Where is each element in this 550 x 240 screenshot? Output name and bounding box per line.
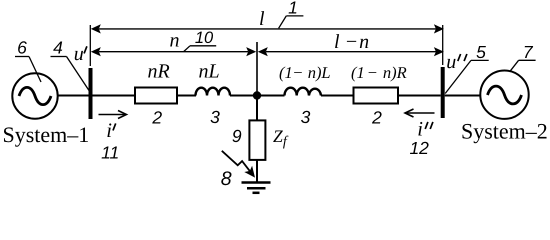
leader for label 4 <box>51 57 90 91</box>
svg-text:System–2: System–2 <box>461 119 548 144</box>
wire resistor nR to inductor nL <box>177 95 196 97</box>
leader for label 6 <box>15 57 41 83</box>
wire G1 to bus u' <box>58 95 89 97</box>
wire Zf to ground <box>256 160 258 183</box>
wire resistor (1-n)R to bus u'' <box>398 95 441 97</box>
svg-text:11: 11 <box>101 142 119 162</box>
leader for label 7 <box>510 60 536 71</box>
wire inductor (1-n)L to resistor (1-n)R <box>321 95 354 97</box>
svg-text:u: u <box>446 51 456 73</box>
generator G2 (System-2 source) <box>480 71 528 119</box>
svg-text:7: 7 <box>523 42 534 62</box>
svg-text:3: 3 <box>301 107 311 127</box>
extension line above bus u' <box>89 25 91 66</box>
svg-text:System–1: System–1 <box>3 122 90 147</box>
svg-text:2: 2 <box>151 107 162 127</box>
wire node F down to fault impedance Zf <box>256 96 258 121</box>
svg-text:nR: nR <box>148 61 170 83</box>
dimension line l-n (right section) <box>258 47 444 56</box>
generator G1 (System-1 source) <box>12 73 57 118</box>
svg-text:i: i <box>106 120 112 142</box>
resistor nR <box>135 88 177 104</box>
svg-text:nL: nL <box>199 61 220 83</box>
svg-text:8: 8 <box>221 168 232 190</box>
resistor (1-n)R <box>354 88 399 104</box>
svg-text:u: u <box>74 43 84 65</box>
leader for label 5 <box>445 60 489 93</box>
dimension line n (left section) <box>91 47 256 56</box>
dimension line l (full length) <box>91 24 444 33</box>
current arrow i'' <box>405 109 435 117</box>
svg-text:n: n <box>170 30 180 52</box>
extension line above bus u'' <box>442 25 444 65</box>
svg-text:9: 9 <box>232 126 242 146</box>
inductor nL <box>196 88 231 96</box>
inductor (1-n)L <box>285 88 322 96</box>
wire bus u' to resistor nR <box>93 95 136 97</box>
svg-text:5: 5 <box>476 42 486 62</box>
svg-text:2: 2 <box>371 107 382 127</box>
leader for label 10 <box>184 46 216 52</box>
extension line above node F <box>256 42 258 96</box>
bus u' (left busbar) <box>89 68 93 119</box>
node F (fault point junction) <box>253 91 261 99</box>
current arrow i' <box>99 111 127 119</box>
svg-text:4: 4 <box>53 37 63 57</box>
wire node F to inductor (1-n)L <box>257 95 285 97</box>
svg-text:3: 3 <box>210 107 220 127</box>
wire inductor nL to node F <box>230 95 257 97</box>
leader for label 1 <box>279 16 304 28</box>
fault arrow (lightning bolt) <box>222 151 250 172</box>
svg-text:12: 12 <box>409 138 429 158</box>
fault impedance Zf <box>249 120 265 159</box>
svg-text:l: l <box>259 8 265 30</box>
svg-text:l−n: l−n <box>334 31 369 53</box>
wire bus u'' to generator G2 <box>445 95 481 97</box>
svg-text:6: 6 <box>17 37 27 57</box>
bus u'' (right busbar) <box>441 67 445 118</box>
svg-text:1: 1 <box>288 0 298 18</box>
ground <box>242 183 271 193</box>
svg-text:10: 10 <box>195 29 214 47</box>
